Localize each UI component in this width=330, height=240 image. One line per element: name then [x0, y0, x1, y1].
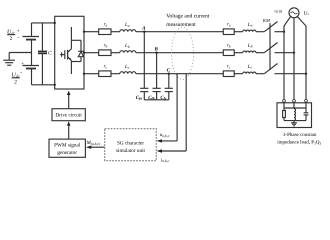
svg-text:Drive circuit: Drive circuit [55, 113, 82, 119]
label U_dc/2 (bottom source) [12, 62, 25, 85]
grid fork left [284, 17, 291, 26]
wire switch B to grid bus [275, 52, 295, 54]
measurement dashed ellipse [172, 27, 194, 79]
load ground [291, 121, 297, 126]
svg-text:Cfc: Cfc [160, 95, 167, 101]
grid bus c [305, 26, 307, 100]
svg-text:Voltage and current: Voltage and current [166, 13, 209, 19]
freewheel diode D1 [71, 40, 83, 61]
svg-text:2: 2 [14, 79, 17, 85]
svg-text:La: La [124, 22, 130, 28]
load inner bottom rail [284, 120, 306, 122]
top DC rail [32, 22, 55, 24]
resistor r_c right [223, 71, 234, 77]
wire to switch A [256, 31, 264, 33]
label U_dc/2 (top source) [7, 29, 20, 42]
switch KM blade C [264, 64, 277, 74]
svg-text:Us: Us [304, 10, 310, 16]
filter capacitor branch C [165, 74, 173, 100]
switch KM blade A [264, 22, 277, 32]
svg-text:A: A [141, 26, 146, 32]
svg-text:+: + [21, 62, 24, 67]
resistor r_a right [223, 29, 234, 35]
grid bus a [283, 26, 285, 100]
wire [111, 52, 120, 54]
svg-text:La: La [247, 22, 253, 28]
svg-text:-: - [17, 35, 19, 41]
i_abc tap wire [161, 74, 186, 151]
inverter box [55, 16, 84, 89]
inductor L_c right [243, 72, 256, 74]
wire to switch C [256, 73, 264, 75]
wire [234, 73, 243, 75]
DC source V2 bottom U_dc/2 [23, 66, 40, 85]
wire [234, 52, 243, 54]
junction dot DC- [54, 84, 56, 86]
load inductor [294, 109, 296, 121]
svg-text:KM: KM [262, 18, 271, 23]
capacitor star bus [144, 99, 169, 101]
svg-text:ra: ra [104, 23, 108, 28]
svg-text:M(a,b,c): M(a,b,c) [86, 140, 101, 146]
switch KM blade B [264, 43, 277, 53]
grid fork right [297, 17, 306, 26]
svg-text:measurement: measurement [166, 22, 196, 28]
filter capacitor branch B [153, 53, 161, 100]
wire switch C to grid bus [275, 73, 307, 75]
sg to pwm wire [91, 146, 105, 148]
ground (DC midpoint) [3, 53, 31, 66]
svg-text:Lc: Lc [247, 64, 253, 70]
wire [111, 73, 120, 75]
inductor L_a left [120, 30, 136, 32]
grid source circle [289, 8, 299, 18]
svg-text:2: 2 [10, 36, 13, 42]
svg-text:rc: rc [227, 65, 231, 70]
DC-link capacitor C [38, 23, 47, 85]
junction dot DC+ [54, 22, 56, 24]
measurement label [166, 13, 209, 27]
svg-text:ua,b,c: ua,b,c [160, 133, 170, 138]
node A [143, 31, 145, 33]
node B [155, 52, 157, 54]
phase A wire (inverter to filter) [84, 31, 99, 33]
wire phase B to right resistor [136, 52, 224, 54]
DC source V1 top U_dc/2 [23, 23, 40, 66]
pwm box [49, 139, 85, 157]
svg-text:Lc: Lc [124, 64, 130, 70]
wire phase C to right resistor [136, 73, 224, 75]
svg-text:B: B [154, 47, 159, 53]
resistor r_a left [99, 29, 111, 35]
resistor r_c left [99, 71, 111, 77]
wire [111, 31, 120, 33]
inductor L_a right [243, 30, 256, 32]
load box [277, 103, 312, 128]
load caption [277, 132, 321, 146]
svg-text:Lb: Lb [247, 43, 253, 49]
wire switch A to grid bus [275, 31, 285, 33]
wire to switch B [256, 52, 264, 54]
inductor L_c left [120, 72, 136, 74]
pwm arrow to drive [68, 126, 70, 140]
svg-text:Cfb: Cfb [148, 95, 155, 101]
phase B wire [84, 52, 99, 54]
load terminal b [293, 99, 296, 102]
resistor r_b right [223, 50, 234, 56]
u_abc tap wire [161, 74, 177, 141]
svg-text:Lb: Lb [124, 43, 130, 49]
load inner top rail [284, 107, 306, 109]
svg-text:Grid: Grid [275, 9, 282, 14]
IGBT Q1 [60, 27, 71, 74]
svg-text:generator: generator [57, 150, 77, 156]
drive arrow to inverter [68, 95, 70, 109]
svg-text:rb: rb [104, 44, 108, 49]
bottom DC rail [32, 84, 55, 86]
svg-text:Cfa: Cfa [136, 95, 143, 101]
svg-text:C: C [48, 51, 52, 57]
load capacitor [304, 108, 309, 121]
svg-text:rb: rb [227, 44, 231, 49]
svg-text:-: - [20, 69, 22, 75]
svg-text:SG character: SG character [117, 140, 144, 146]
resistor r_b left [99, 50, 111, 56]
load terminal c [305, 99, 308, 102]
load terminal stubs [284, 102, 306, 108]
svg-text:3-Phase constant: 3-Phase constant [283, 132, 317, 138]
filter capacitor branch A [140, 32, 148, 100]
svg-text:ia,b,c: ia,b,c [161, 157, 170, 163]
load terminal a [283, 99, 286, 102]
phase C wire [84, 73, 99, 75]
svg-text:rc: rc [104, 65, 108, 70]
svg-text:simulator unit: simulator unit [116, 148, 146, 154]
svg-text:impedance load, P1Q1: impedance load, P1Q1 [277, 140, 321, 146]
svg-text:PWM signal: PWM signal [54, 143, 81, 149]
inductor L_b right [243, 51, 256, 53]
grid bus b [293, 18, 295, 100]
KM mechanical link [269, 23, 271, 70]
svg-text:C: C [167, 68, 171, 74]
drive circuit box [52, 109, 85, 121]
wire [234, 31, 243, 33]
SG character simulator unit box [105, 129, 157, 161]
svg-text:ra: ra [227, 23, 231, 28]
load resistor [283, 108, 286, 121]
wire phase A to right resistor [136, 31, 224, 33]
inductor L_b left [120, 51, 136, 53]
node C [168, 73, 170, 75]
